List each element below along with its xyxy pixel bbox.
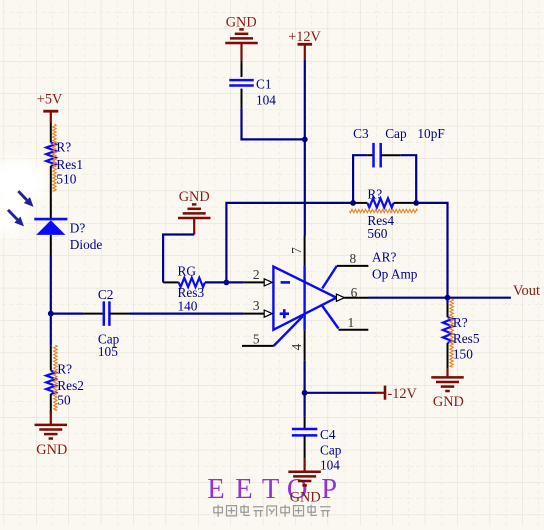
svg-text:GND: GND bbox=[179, 189, 210, 205]
svg-text:R?: R? bbox=[56, 140, 71, 155]
svg-text:4: 4 bbox=[289, 343, 304, 350]
svg-text:1: 1 bbox=[348, 315, 355, 330]
svg-text:105: 105 bbox=[98, 344, 118, 359]
svg-text:150: 150 bbox=[453, 347, 473, 362]
svg-text:GND: GND bbox=[226, 14, 257, 30]
svg-text:560: 560 bbox=[367, 226, 387, 241]
svg-text:140: 140 bbox=[178, 298, 198, 313]
svg-text:104: 104 bbox=[256, 92, 276, 107]
svg-text:10pF: 10pF bbox=[417, 126, 444, 141]
svg-text:8: 8 bbox=[350, 251, 357, 266]
svg-text:7: 7 bbox=[289, 247, 304, 254]
svg-text:RG: RG bbox=[178, 264, 197, 279]
svg-text:Res2: Res2 bbox=[57, 378, 84, 393]
svg-text:E: E bbox=[207, 474, 224, 505]
svg-text:2: 2 bbox=[253, 267, 260, 282]
svg-text:3: 3 bbox=[253, 298, 260, 313]
svg-text:E: E bbox=[235, 474, 252, 505]
svg-text:Cap: Cap bbox=[320, 442, 342, 457]
svg-text:+12V: +12V bbox=[288, 29, 321, 45]
svg-text:Diode: Diode bbox=[70, 237, 103, 252]
svg-text:C2: C2 bbox=[98, 287, 114, 302]
svg-text:104: 104 bbox=[320, 457, 340, 472]
svg-text:GND: GND bbox=[433, 394, 464, 410]
svg-text:C1: C1 bbox=[256, 77, 272, 92]
svg-text:R?: R? bbox=[453, 315, 468, 330]
svg-text:Res1: Res1 bbox=[56, 157, 83, 172]
svg-text:Res5: Res5 bbox=[453, 331, 480, 346]
svg-text:GND: GND bbox=[290, 490, 321, 506]
svg-text:Vout: Vout bbox=[513, 283, 540, 299]
svg-text:Cap: Cap bbox=[385, 126, 407, 141]
svg-text:510: 510 bbox=[56, 172, 76, 187]
svg-text:+5V: +5V bbox=[37, 92, 63, 108]
svg-text:C4: C4 bbox=[320, 427, 336, 442]
svg-text:6: 6 bbox=[351, 285, 358, 300]
svg-text:R?: R? bbox=[367, 187, 382, 202]
svg-text:AR?: AR? bbox=[372, 250, 396, 265]
svg-text:Op Amp: Op Amp bbox=[372, 266, 418, 281]
svg-text:5: 5 bbox=[253, 332, 260, 347]
svg-text:R?: R? bbox=[57, 361, 72, 376]
svg-text:D?: D? bbox=[70, 221, 86, 236]
svg-text:GND: GND bbox=[36, 442, 67, 458]
svg-text:-12V: -12V bbox=[388, 386, 418, 402]
svg-text:C3: C3 bbox=[353, 126, 369, 141]
svg-text:50: 50 bbox=[57, 392, 71, 407]
svg-text:T: T bbox=[262, 474, 279, 505]
svg-text:P: P bbox=[321, 474, 337, 505]
